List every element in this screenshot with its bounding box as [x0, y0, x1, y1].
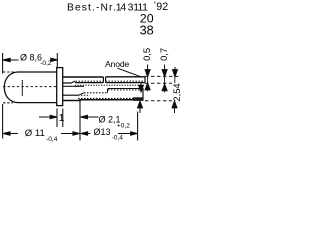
- svg-text:Best.-Nr.: Best.-Nr.: [67, 3, 117, 14]
- svg-text:Anode: Anode: [105, 59, 129, 69]
- svg-text:+0,2: +0,2: [117, 123, 130, 130]
- svg-text:0,5: 0,5: [141, 48, 152, 61]
- svg-text:1: 1: [59, 113, 65, 124]
- svg-text:92: 92: [156, 1, 168, 13]
- svg-text:Ø13: Ø13: [94, 127, 111, 137]
- svg-text:Ø 8,6: Ø 8,6: [20, 53, 42, 63]
- svg-text:-0,4: -0,4: [112, 135, 124, 142]
- svg-text:0,7: 0,7: [158, 48, 169, 61]
- svg-text:2,54: 2,54: [171, 83, 181, 101]
- svg-text:Ø 11: Ø 11: [25, 128, 45, 139]
- svg-text:38: 38: [140, 23, 154, 37]
- svg-text:-0,2: -0,2: [40, 60, 52, 67]
- svg-text:14: 14: [116, 3, 127, 14]
- svg-text:-0,4: -0,4: [46, 136, 58, 143]
